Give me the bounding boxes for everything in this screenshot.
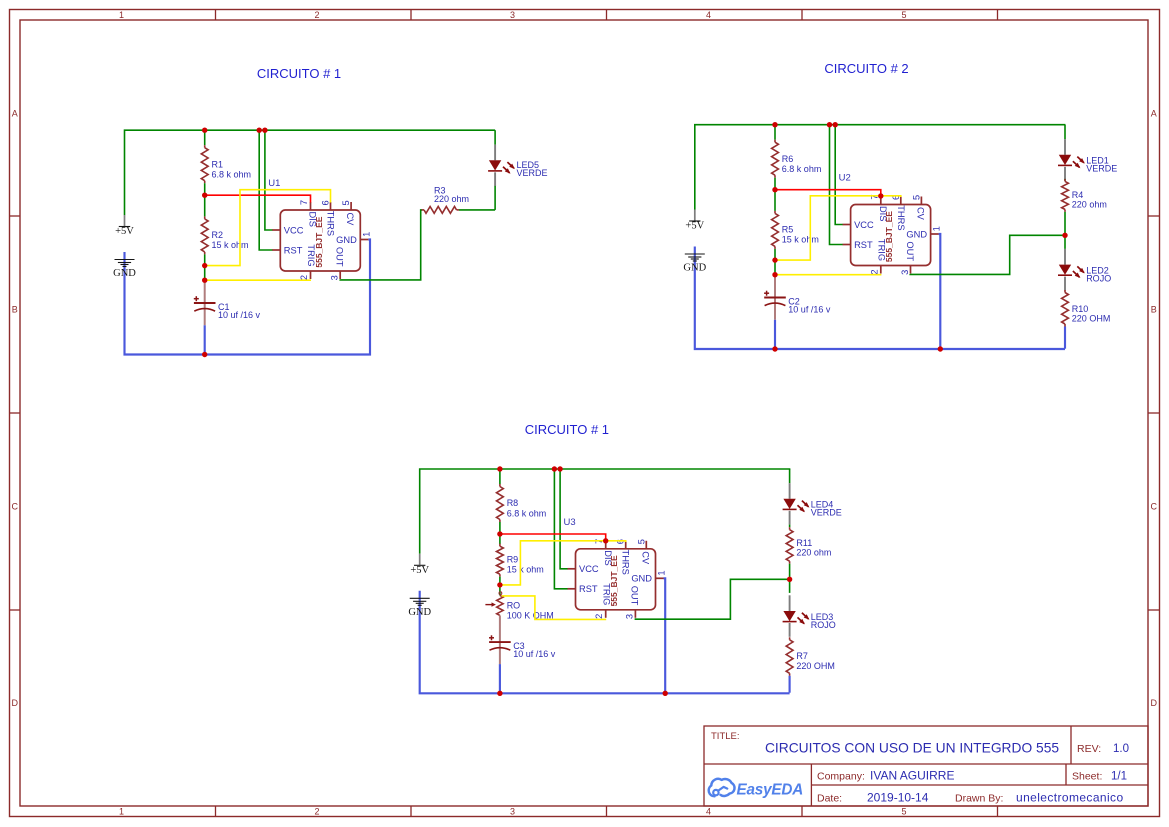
svg-text:220 OHM: 220 OHM	[1072, 314, 1111, 324]
svg-text:THRS: THRS	[896, 205, 906, 230]
svg-text:Date:: Date:	[817, 793, 842, 805]
svg-text:5: 5	[911, 195, 921, 200]
svg-text:R5: R5	[782, 225, 794, 235]
svg-text:R1: R1	[212, 159, 224, 169]
svg-text:D: D	[1150, 698, 1157, 708]
svg-text:3: 3	[625, 614, 635, 619]
svg-text:R4: R4	[1072, 190, 1084, 200]
svg-text:220 OHM: 220 OHM	[796, 661, 835, 671]
svg-text:6.8 k ohm: 6.8 k ohm	[782, 164, 822, 174]
svg-text:OUT: OUT	[905, 241, 915, 261]
svg-text:2: 2	[314, 807, 319, 817]
svg-text:6: 6	[616, 539, 626, 544]
svg-text:U2: U2	[839, 173, 851, 184]
svg-text:5: 5	[901, 807, 906, 817]
svg-text:2: 2	[869, 269, 879, 274]
svg-text:U3: U3	[564, 517, 576, 528]
svg-text:CIRCUITO # 2: CIRCUITO # 2	[824, 61, 908, 76]
svg-text:CIRCUITO # 1: CIRCUITO # 1	[257, 66, 341, 81]
svg-text:2019-10-14: 2019-10-14	[867, 791, 929, 805]
svg-text:15 k ohm: 15 k ohm	[507, 564, 544, 574]
svg-text:GND: GND	[408, 607, 431, 618]
svg-text:C: C	[11, 501, 18, 511]
svg-text:R7: R7	[796, 651, 808, 661]
svg-text:CV: CV	[915, 207, 925, 221]
svg-text:VERDE: VERDE	[517, 168, 548, 178]
svg-text:1: 1	[119, 10, 124, 20]
svg-text:VCC: VCC	[284, 225, 304, 235]
svg-text:OUT: OUT	[630, 586, 640, 606]
svg-text:CIRCUITOS CON USO DE UN INTEGR: CIRCUITOS CON USO DE UN INTEGRDO 555	[765, 741, 1059, 756]
svg-text:unelectromecanico: unelectromecanico	[1016, 791, 1124, 805]
svg-text:10 uf /16 v: 10 uf /16 v	[788, 304, 831, 314]
svg-text:VERDE: VERDE	[811, 508, 842, 518]
svg-text:U1: U1	[268, 178, 280, 189]
svg-text:+5V: +5V	[410, 565, 429, 576]
svg-text:REV:: REV:	[1077, 743, 1101, 755]
svg-text:ROJO: ROJO	[811, 620, 836, 630]
svg-text:1: 1	[119, 807, 124, 817]
svg-text:10 uf /16 v: 10 uf /16 v	[218, 310, 261, 320]
svg-text:4: 4	[706, 807, 711, 817]
svg-text:6.8 k ohm: 6.8 k ohm	[212, 170, 252, 180]
svg-text:220 ohm: 220 ohm	[1072, 199, 1107, 209]
svg-text:B: B	[12, 304, 18, 314]
svg-text:B: B	[1151, 304, 1157, 314]
svg-text:GND: GND	[336, 235, 357, 245]
svg-text:R8: R8	[507, 498, 519, 508]
svg-text:555_BJT_EE: 555_BJT_EE	[884, 211, 894, 262]
svg-text:GND: GND	[113, 268, 136, 279]
svg-text:RST: RST	[854, 240, 873, 250]
svg-text:R2: R2	[212, 230, 224, 240]
svg-text:7: 7	[299, 200, 309, 205]
svg-text:R10: R10	[1072, 304, 1089, 314]
svg-text:R9: R9	[507, 555, 519, 565]
svg-text:220 ohm: 220 ohm	[434, 194, 469, 204]
svg-text:ROJO: ROJO	[1086, 274, 1111, 284]
svg-text:220 ohm: 220 ohm	[796, 548, 831, 558]
svg-text:3: 3	[510, 10, 515, 20]
svg-text:1: 1	[657, 571, 667, 576]
svg-text:+5V: +5V	[115, 226, 134, 237]
svg-text:A: A	[1151, 108, 1157, 118]
svg-text:3: 3	[510, 807, 515, 817]
svg-text:R6: R6	[782, 154, 794, 164]
svg-text:3: 3	[900, 270, 910, 275]
svg-text:RST: RST	[579, 584, 598, 594]
svg-text:VCC: VCC	[854, 220, 874, 230]
svg-text:5: 5	[341, 200, 351, 205]
svg-text:Drawn By:: Drawn By:	[955, 793, 1003, 805]
svg-text:+5V: +5V	[685, 221, 704, 232]
svg-text:TITLE:: TITLE:	[711, 731, 740, 742]
svg-text:THRS: THRS	[326, 211, 336, 236]
svg-text:A: A	[12, 108, 18, 118]
svg-text:CV: CV	[345, 212, 355, 226]
svg-text:GND: GND	[631, 574, 652, 584]
svg-text:6: 6	[321, 200, 331, 205]
svg-text:4: 4	[706, 10, 711, 20]
svg-text:OUT: OUT	[335, 247, 345, 267]
svg-text:5: 5	[901, 10, 906, 20]
svg-text:1.0: 1.0	[1113, 743, 1129, 755]
svg-text:1: 1	[932, 226, 942, 231]
svg-text:15 k ohm: 15 k ohm	[782, 235, 819, 245]
svg-text:2: 2	[314, 10, 319, 20]
svg-text:CIRCUITO # 1: CIRCUITO # 1	[525, 422, 609, 437]
svg-text:EasyEDA: EasyEDA	[737, 781, 804, 798]
svg-text:Sheet:: Sheet:	[1072, 771, 1102, 783]
svg-text:10 uf /16 v: 10 uf /16 v	[513, 649, 556, 659]
svg-text:2: 2	[299, 275, 309, 280]
svg-text:C: C	[1150, 501, 1157, 511]
svg-text:1/1: 1/1	[1111, 771, 1127, 783]
svg-text:VCC: VCC	[579, 564, 599, 574]
svg-text:RST: RST	[284, 245, 303, 255]
svg-text:R11: R11	[796, 538, 812, 548]
svg-text:GND: GND	[683, 263, 706, 274]
svg-text:555_BJT_EE: 555_BJT_EE	[609, 555, 619, 606]
svg-text:1: 1	[361, 232, 371, 237]
svg-text:3: 3	[330, 275, 340, 280]
svg-text:GND: GND	[906, 229, 927, 239]
svg-text:5: 5	[636, 539, 646, 544]
svg-text:2: 2	[594, 614, 604, 619]
svg-text:Company:: Company:	[817, 770, 865, 782]
svg-text:6.8 k ohm: 6.8 k ohm	[507, 508, 547, 518]
svg-text:VERDE: VERDE	[1086, 164, 1117, 174]
svg-text:15 k ohm: 15 k ohm	[212, 240, 249, 250]
svg-text:THRS: THRS	[621, 550, 631, 575]
svg-text:RO: RO	[507, 600, 521, 610]
svg-text:IVAN AGUIRRE: IVAN AGUIRRE	[870, 768, 954, 782]
svg-text:555_BJT_EE: 555_BJT_EE	[314, 216, 324, 267]
svg-text:CV: CV	[640, 551, 650, 565]
svg-text:D: D	[11, 698, 18, 708]
